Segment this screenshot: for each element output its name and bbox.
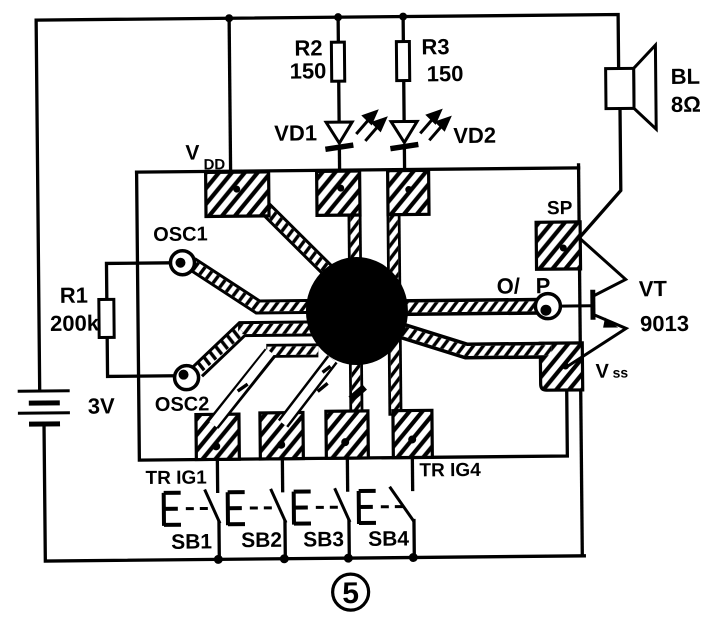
svg-text:OSC1: OSC1 [153, 223, 208, 246]
svg-text:OSC2: OSC2 [155, 393, 210, 416]
svg-text:ss: ss [612, 364, 628, 380]
svg-text:SP: SP [547, 198, 573, 219]
svg-text:DD: DD [203, 156, 225, 173]
svg-text:9013: 9013 [640, 311, 689, 336]
svg-text:8Ω: 8Ω [671, 92, 701, 117]
svg-text:3V: 3V [88, 393, 115, 418]
svg-text:P: P [536, 273, 551, 298]
svg-text:SB3: SB3 [303, 528, 344, 551]
svg-text:5: 5 [342, 577, 359, 610]
svg-text:R1: R1 [60, 283, 88, 308]
svg-text:TR IG4: TR IG4 [419, 460, 481, 482]
svg-text:150: 150 [427, 61, 464, 86]
svg-text:200k: 200k [50, 310, 100, 335]
svg-text:R3: R3 [421, 34, 449, 59]
svg-text:R2: R2 [294, 35, 322, 60]
svg-text:V: V [185, 142, 199, 165]
svg-text:150: 150 [290, 58, 327, 83]
svg-text:O/: O/ [497, 273, 520, 298]
svg-text:TR IG1: TR IG1 [145, 467, 207, 489]
svg-text:SB2: SB2 [241, 529, 282, 552]
svg-text:VT: VT [639, 276, 668, 301]
svg-text:SB4: SB4 [368, 528, 409, 551]
svg-text:V: V [595, 361, 609, 383]
svg-text:VD2: VD2 [453, 123, 496, 148]
svg-text:BL: BL [671, 64, 701, 89]
svg-text:VD1: VD1 [274, 120, 317, 145]
svg-text:SB1: SB1 [171, 530, 212, 553]
